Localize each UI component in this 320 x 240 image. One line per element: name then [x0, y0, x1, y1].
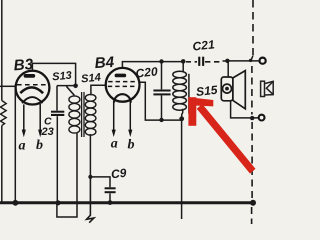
svg-text:b: b [128, 137, 135, 152]
svg-text:C9: C9 [110, 166, 127, 182]
svg-text:C21: C21 [192, 37, 216, 53]
svg-text:C20: C20 [135, 64, 159, 80]
svg-text:b: b [36, 138, 43, 153]
svg-text:B3: B3 [13, 56, 34, 74]
svg-text:S14: S14 [81, 72, 102, 86]
svg-text:B4: B4 [94, 54, 115, 72]
svg-text:a: a [111, 137, 118, 152]
svg-text:a: a [19, 139, 26, 154]
svg-text:S13: S13 [52, 70, 73, 84]
svg-text:S15: S15 [195, 83, 218, 99]
svg-text:23: 23 [41, 126, 54, 138]
